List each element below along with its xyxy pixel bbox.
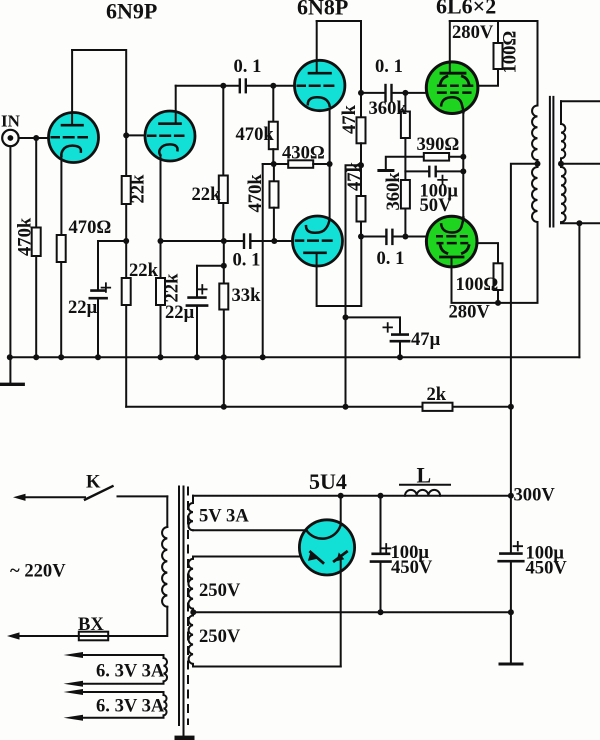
tube T3 6N8P section A xyxy=(295,60,345,110)
wire 5U4 filament drop xyxy=(340,496,342,526)
node OPT center tap (dot) xyxy=(535,161,541,167)
svg-text:50V: 50V xyxy=(420,195,453,216)
node rail filament (dot) xyxy=(338,493,344,499)
wire T2 plate to coupling cap xyxy=(176,85,240,87)
svg-text:L: L xyxy=(417,463,432,488)
capacitor 0.1 no3 xyxy=(233,235,261,271)
transformer OPT secondary xyxy=(561,101,600,223)
resistor 430ohm xyxy=(263,143,330,168)
svg-text:K: K xyxy=(86,472,101,493)
node 300V (dot) xyxy=(508,493,514,499)
tube T5 6L6 upper xyxy=(426,62,478,114)
svg-text:430Ω: 430Ω xyxy=(282,143,325,164)
node cap4 tee (dot) xyxy=(358,90,364,96)
capacitor 100u 450V no1 xyxy=(371,496,433,613)
wire 47k mid jog down to 47u xyxy=(346,165,362,317)
svg-text:0. 1: 0. 1 xyxy=(375,56,403,77)
node 360k1 top (dot) xyxy=(402,90,408,96)
label IN xyxy=(1,112,21,131)
wire plate bracket to T2 grid xyxy=(72,50,126,135)
resistor 470k input xyxy=(15,138,41,357)
resistor 360k no2 xyxy=(383,172,410,237)
transformer PT primary xyxy=(108,496,167,636)
resistor 47k no1 xyxy=(339,104,366,165)
tube T2 6N9P section B xyxy=(145,111,195,161)
wire T1 plate lead up xyxy=(71,50,73,125)
svg-text:0. 1: 0. 1 xyxy=(234,56,262,77)
svg-text:470Ω: 470Ω xyxy=(69,217,112,238)
svg-text:280V: 280V xyxy=(452,22,494,43)
node 2k line dots xyxy=(221,404,514,410)
resistor 360k no1 xyxy=(369,93,410,180)
wire T6 plate to OPT bottom xyxy=(452,222,538,303)
svg-text:450V: 450V xyxy=(391,557,433,578)
label ~220V xyxy=(10,561,66,582)
svg-text:22μ: 22μ xyxy=(165,302,195,323)
label K switch xyxy=(86,472,101,493)
svg-text:5U4: 5U4 xyxy=(309,469,347,494)
fuse BX xyxy=(7,614,108,640)
svg-text:5V 3A: 5V 3A xyxy=(199,506,249,527)
node cathode2 (dot) xyxy=(158,238,164,244)
transformer PT 6.3V winding no1 xyxy=(64,652,168,687)
input jack J1 xyxy=(2,130,18,146)
svg-text:100Ω: 100Ω xyxy=(500,31,521,74)
wire 2k feed line xyxy=(126,406,422,408)
node 33k top (dot) xyxy=(221,238,227,244)
svg-text:6. 3V 3A: 6. 3V 3A xyxy=(96,696,165,717)
capacitor 47u xyxy=(346,317,441,357)
ground stub at bias node xyxy=(379,157,406,171)
wire splitter grid line y241 xyxy=(161,240,244,242)
wire 47u node to 2k line xyxy=(345,317,347,406)
svg-text:470k: 470k xyxy=(236,124,275,145)
node cap2 bottom (dot) xyxy=(508,609,514,615)
node X supply (dot) xyxy=(123,238,129,244)
wire B+ rail y496 xyxy=(193,495,511,497)
label 280V lower xyxy=(449,302,491,323)
title 6N9P xyxy=(106,0,157,24)
tube T7 5U4 rectifier xyxy=(299,520,354,575)
node 22u2 tap (dot) xyxy=(221,263,227,269)
tube T6 6L6 lower inverted xyxy=(426,216,477,267)
wire jack to T1 grid xyxy=(19,137,50,139)
title 6L6x2 xyxy=(436,0,496,19)
node bus dots xyxy=(7,354,403,360)
svg-text:0. 1: 0. 1 xyxy=(233,250,261,271)
wire T3 T4 cathode vertical xyxy=(329,106,331,220)
wire T1 cathode lead xyxy=(60,155,62,235)
svg-text:250V: 250V xyxy=(199,626,241,647)
resistor 100ohm no1 xyxy=(478,21,521,86)
resistor 470k no2 xyxy=(236,86,278,164)
label 280V upper xyxy=(452,22,494,43)
svg-text:6N9P: 6N9P xyxy=(106,0,157,24)
node 47u tee (dot) xyxy=(343,314,349,320)
transformer PT 250V winding no1 xyxy=(188,557,240,613)
wire cap2 to T3 grid xyxy=(246,85,295,87)
svg-text:250V: 250V xyxy=(199,580,241,601)
svg-text:100Ω: 100Ω xyxy=(456,274,499,295)
node T4 grid (dot) xyxy=(271,238,277,244)
svg-text:6L6×2: 6L6×2 xyxy=(436,0,496,19)
resistor 22k no1 plate chain xyxy=(122,135,149,241)
node T4 plate cap5 (dot) xyxy=(358,234,364,240)
ground symbol main xyxy=(1,357,23,384)
wire T3 plate lead up xyxy=(316,21,318,73)
svg-text:2k: 2k xyxy=(427,384,447,405)
wire ground strap to 2k line xyxy=(223,357,225,407)
node secondary tap (dot) xyxy=(558,161,564,167)
node T2 grid (dot) xyxy=(123,132,129,138)
wire jack ground stem xyxy=(9,146,11,357)
wire T5 plate lead up xyxy=(449,21,451,73)
svg-text:0. 1: 0. 1 xyxy=(377,248,405,269)
capacitor 0.1 no5 xyxy=(361,230,427,269)
svg-text:360k: 360k xyxy=(383,172,404,211)
svg-text:280V: 280V xyxy=(449,302,491,323)
node 100u right (dot) xyxy=(460,168,466,174)
capacitor 0.1 no4 xyxy=(361,56,427,101)
wire secondary return down xyxy=(578,223,580,357)
capacitor 22u no1 with jog xyxy=(68,241,126,357)
svg-text:300V: 300V xyxy=(514,485,556,506)
node T3 grid (dot) xyxy=(270,83,276,89)
ground bar PSU xyxy=(500,663,522,666)
node 390 right (dot) xyxy=(460,154,466,160)
svg-text:22k: 22k xyxy=(162,273,183,303)
resistor 2k xyxy=(423,384,511,411)
svg-text:6. 3V 3A: 6. 3V 3A xyxy=(96,661,165,682)
node input (dot) xyxy=(33,135,39,141)
title 6N8P xyxy=(297,0,348,20)
node rail cap1 (dot) xyxy=(378,493,384,499)
svg-text:360k: 360k xyxy=(369,98,408,119)
transformer OPT primary xyxy=(532,21,538,222)
svg-text:470k: 470k xyxy=(15,217,36,256)
resistor 47k no2 xyxy=(344,161,366,236)
label 5U4 xyxy=(309,469,347,494)
switch K with mains arrow xyxy=(13,486,167,501)
resistor 22k no3 cathode xyxy=(156,241,183,357)
wire T2 cathode line B xyxy=(160,155,162,241)
capacitor 100u 450V no2 xyxy=(499,496,568,664)
resistor 22k no2 supply dropper xyxy=(122,241,159,407)
resistor 390ohm xyxy=(405,134,463,161)
wire 250V top lead to 5U4 left anode xyxy=(193,556,314,558)
wire 5V bottom lead to 5U4 filament xyxy=(193,529,306,531)
transformer PT 5V winding xyxy=(188,496,249,531)
wire OPT tap to B+ column xyxy=(511,164,538,496)
svg-text:450V: 450V xyxy=(526,558,568,579)
inductor L choke xyxy=(400,463,450,496)
wire 280V top rail xyxy=(450,20,538,22)
wire 5U4 cathode-anode column xyxy=(340,558,342,667)
wire cap3 to T4 grid xyxy=(251,240,293,242)
resistor 470k no3 grid leak xyxy=(245,164,279,241)
wire T3 plate bracket xyxy=(317,21,361,117)
node 47k mid (dot) xyxy=(358,162,364,168)
wire to T2 grid xyxy=(126,134,145,136)
svg-text:47μ: 47μ xyxy=(411,329,441,350)
capacitor 0.1 coupling no2 xyxy=(234,56,262,92)
node PT center tap (dot) xyxy=(190,609,196,615)
svg-text:6N8P: 6N8P xyxy=(297,0,348,20)
wire 430 node down to ground bus xyxy=(262,164,264,357)
svg-text:22μ: 22μ xyxy=(68,297,98,318)
node 430 left (dot) xyxy=(271,161,277,167)
capacitor 100u 50V xyxy=(405,167,463,216)
wire 250V bottom lead xyxy=(193,666,341,668)
tube T1 6N9P section A xyxy=(49,113,99,163)
node 360k2 bottom (dot) xyxy=(402,234,408,240)
svg-text:22k: 22k xyxy=(192,184,222,205)
svg-text:~ 220V: ~ 220V xyxy=(10,561,66,582)
node cap1 bottom (dot) xyxy=(378,609,384,615)
node 430 right cathode (dot) xyxy=(327,161,333,167)
resistor 22k no4 plate load T2 xyxy=(192,86,228,241)
transformer OPT core xyxy=(550,97,554,227)
resistor 470ohm T1 cathode xyxy=(57,217,112,357)
wire center tap line y612 xyxy=(193,611,511,613)
capacitor 22u no2 xyxy=(165,266,224,357)
transformer PT 250V winding no2 xyxy=(189,612,241,666)
svg-text:22k: 22k xyxy=(129,260,159,281)
svg-text:47k: 47k xyxy=(339,104,360,134)
wire shared cathode vertical xyxy=(462,112,464,220)
node 100ohm2 bottom (dot) xyxy=(495,300,501,306)
svg-text:33k: 33k xyxy=(232,285,262,306)
node plate2 (dot) xyxy=(220,83,226,89)
transformer PT core xyxy=(175,487,195,740)
wire ground bus xyxy=(9,356,579,358)
transformer PT 6.3V winding no2 xyxy=(64,689,167,721)
label 300V xyxy=(514,485,556,506)
node secondary bottom (dot) xyxy=(576,220,582,226)
resistor 33k xyxy=(219,241,261,357)
resistor 100ohm no2 xyxy=(456,243,503,303)
svg-text:390Ω: 390Ω xyxy=(417,134,460,155)
tube T4 6N8P section B inverted xyxy=(293,216,343,266)
wire T4 plate U route xyxy=(317,237,362,307)
svg-text:IN: IN xyxy=(1,112,21,131)
wire T2 plate lead up xyxy=(175,86,177,124)
svg-text:22k: 22k xyxy=(128,174,149,204)
